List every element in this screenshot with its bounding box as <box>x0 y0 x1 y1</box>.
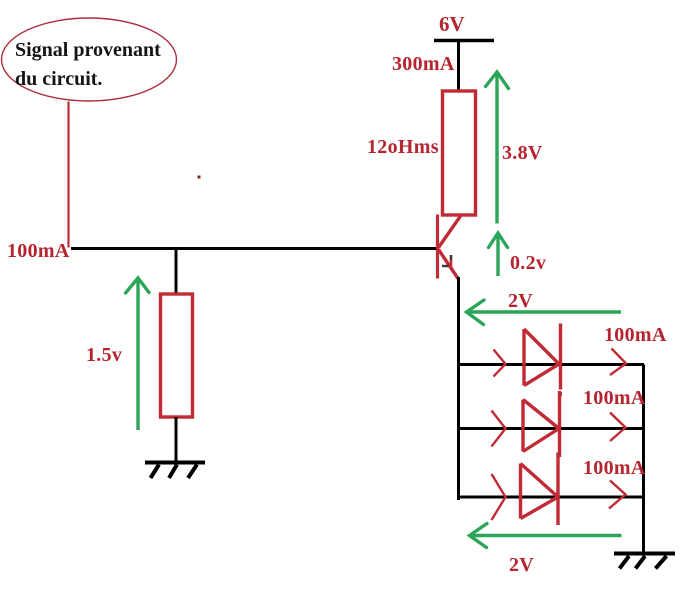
svg-text:Signal provenant: Signal provenant <box>15 39 161 61</box>
svg-text:100mA: 100mA <box>604 324 667 346</box>
svg-text:du circuit.: du circuit. <box>15 68 102 90</box>
svg-text:2V: 2V <box>508 290 533 312</box>
svg-text:2V: 2V <box>509 554 534 576</box>
svg-text:3.8V: 3.8V <box>502 142 543 164</box>
svg-text:300mA: 300mA <box>392 53 455 75</box>
svg-text:100mA: 100mA <box>7 240 70 262</box>
svg-text:100mA: 100mA <box>583 457 646 479</box>
svg-text:0.2v: 0.2v <box>510 252 546 274</box>
svg-text:100mA: 100mA <box>583 387 646 409</box>
svg-text:6V: 6V <box>439 12 465 36</box>
svg-text:12oHms: 12oHms <box>367 136 439 158</box>
svg-text:1.5v: 1.5v <box>86 344 122 366</box>
